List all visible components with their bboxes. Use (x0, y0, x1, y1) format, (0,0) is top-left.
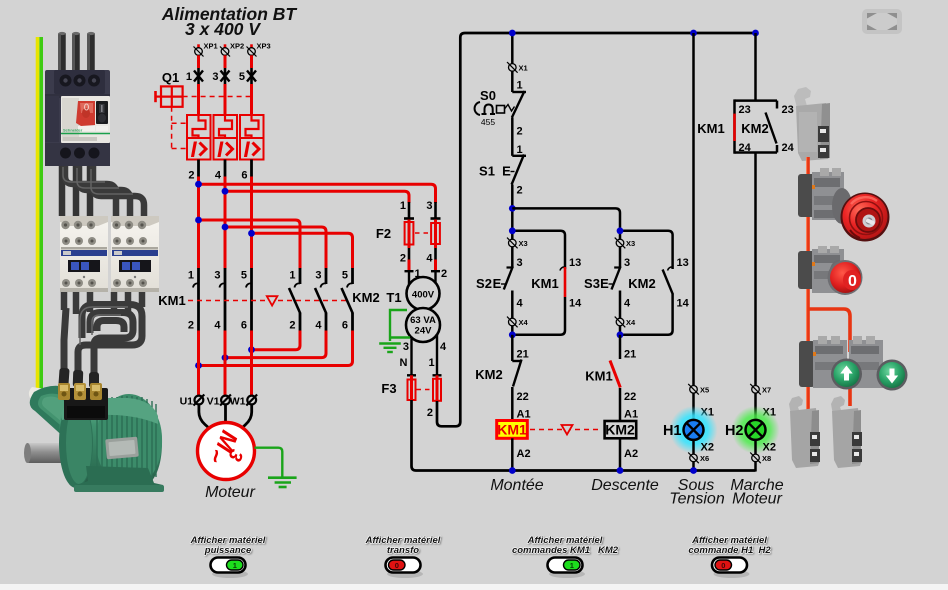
terminal W1 (230, 395, 257, 408)
svg-text:Moteur: Moteur (205, 484, 255, 501)
svg-text:13: 13 (677, 257, 689, 269)
green up/down buttons photo (799, 336, 908, 391)
svg-text:X3: X3 (626, 239, 635, 248)
coil KM1 energized (497, 421, 528, 439)
motor terminal studs (58, 383, 102, 400)
T1 ground symbol (379, 344, 401, 353)
KM2 aux 13-14 open contact (620, 257, 690, 335)
svg-text:1: 1 (186, 71, 192, 83)
overload element pole3 (240, 115, 264, 162)
svg-text:KM2: KM2 (628, 276, 655, 291)
overload output stub pole1 (188, 160, 198, 182)
svg-text:N: N (400, 357, 408, 369)
top-right resize icon (862, 9, 902, 34)
terminal XP1 (194, 42, 218, 57)
svg-text:XP1: XP1 (204, 42, 218, 51)
svg-text:S3: S3 (584, 276, 600, 291)
svg-text:2: 2 (400, 253, 406, 265)
svg-text:4: 4 (517, 298, 524, 310)
svg-text:X7: X7 (762, 386, 771, 395)
aux contact block photo top-right (794, 87, 830, 161)
svg-text:21: 21 (517, 349, 529, 361)
svg-text:KM2: KM2 (475, 367, 502, 382)
wire X1 to S0 (511, 71, 514, 92)
svg-text:6: 6 (241, 320, 247, 332)
svg-text:Moteur: Moteur (732, 491, 782, 508)
wire phase L3 vertical (250, 177, 253, 269)
terminal X7 (750, 384, 771, 395)
svg-text:KM2: KM2 (741, 121, 768, 136)
wire S1 down to node (511, 185, 514, 240)
wire node to S3 branch (512, 208, 620, 239)
wire L1 to U1 (197, 331, 200, 396)
wire X6 to rail (692, 462, 695, 471)
junction dots level3 (509, 331, 516, 338)
wire KM2 out 4 to L2 (225, 331, 326, 358)
transformer T1 primary terminals (405, 270, 441, 272)
svg-text:2: 2 (188, 320, 194, 332)
mechanical link dashed KM1-KM2 (188, 300, 348, 302)
wire X4 to lower node left (511, 326, 514, 336)
KM1 aux 13-14 closed contact (512, 257, 582, 335)
wire W1 to motor (241, 405, 252, 429)
cable L2 to breaker (72, 33, 80, 74)
svg-text:KM1: KM1 (531, 276, 558, 291)
terminal X4 left (507, 317, 529, 328)
cable end caps (58, 32, 94, 35)
coil interlock triangle (562, 425, 573, 435)
motor M3 symbol (198, 423, 255, 480)
S3 NO contact (612, 247, 621, 318)
svg-text:1: 1 (517, 144, 523, 156)
svg-text:21: 21 (624, 349, 636, 361)
svg-text:1: 1 (570, 561, 574, 570)
wire L3 to W1 (250, 331, 253, 396)
bottom light strip (0, 584, 948, 590)
fuse F3 terminals (407, 374, 442, 376)
T1 primary stubs (409, 271, 436, 288)
toggle2 switch OFF (386, 558, 424, 579)
svg-text:XP3: XP3 (257, 42, 271, 51)
svg-text:4: 4 (624, 298, 631, 310)
wire X7 to H2 (754, 393, 757, 420)
motor photo: foot (76, 466, 163, 491)
svg-text:2: 2 (427, 407, 433, 419)
wire V1 to motor (224, 405, 227, 424)
wire H2 to X8 (754, 440, 757, 454)
KM2 NC 21-22 contact closed (512, 360, 522, 421)
wire to KM1 NC (619, 335, 622, 359)
terminal X6 (688, 453, 709, 464)
wire coil KM2 to rail (619, 438, 622, 470)
fuse F2 pole1 (405, 202, 414, 271)
junction dots top taps (195, 181, 255, 237)
terminal X5 (688, 384, 709, 395)
svg-text:W1: W1 (230, 396, 246, 408)
toggle1 switch ON (211, 558, 249, 579)
red 0 push button photo (798, 246, 863, 295)
T1 ground wire (390, 310, 407, 341)
wire X4 to lower node right (619, 326, 622, 336)
svg-text:5: 5 (241, 270, 247, 282)
svg-text:0: 0 (721, 561, 725, 570)
svg-text:6: 6 (241, 170, 247, 182)
terminal X8 (750, 453, 771, 464)
wire bracket to X7 (754, 153, 757, 386)
svg-text:2: 2 (441, 268, 447, 280)
svg-text:455: 455 (481, 117, 495, 127)
cables breaker to contactors (62, 166, 90, 216)
wire U1 to motor (199, 405, 210, 429)
wire N to bottom rail + bottom rail (412, 400, 756, 471)
Q1 operator dashed link (172, 97, 252, 149)
motor photo: ground lug (29, 387, 52, 402)
wire to KM2 NC (511, 335, 514, 361)
svg-text:transfo: transfo (387, 545, 419, 556)
svg-text:X3: X3 (519, 239, 528, 248)
svg-text:0: 0 (395, 561, 399, 570)
overload element pole1 (187, 115, 211, 162)
T1 secondary stubs (412, 334, 438, 375)
junction dots top rail (509, 30, 516, 37)
wire S0 to S1 (511, 118, 514, 156)
cable L3 to breaker (87, 33, 95, 74)
lamp H1 glow (670, 406, 718, 454)
motor photo: name plate (105, 437, 139, 460)
wire L2 into breaker (224, 55, 227, 68)
contactor KM1 pole 3-4 closed (214, 268, 225, 332)
svg-text:63 VA: 63 VA (410, 315, 436, 326)
svg-text:X2: X2 (701, 442, 714, 454)
toggle labels style (190, 535, 772, 556)
wire phase L2 vertical (224, 177, 227, 269)
svg-text:KM1: KM1 (697, 121, 724, 136)
svg-text:4: 4 (426, 253, 433, 265)
svg-text:3: 3 (624, 257, 630, 269)
mechanical interlock triangle (267, 296, 278, 305)
motor ground wire (255, 448, 283, 477)
svg-text:22: 22 (517, 391, 529, 403)
cable highlights (60, 34, 89, 72)
wire S3node to KM2-13 branch (620, 231, 673, 267)
S0 mushroom actuator (475, 102, 515, 115)
emergency stop photo (798, 168, 890, 242)
svg-text:~: ~ (201, 448, 229, 464)
fuse F3 pole N (408, 375, 416, 400)
breaker Q1 contact pole1 (186, 68, 203, 84)
svg-text:KM2: KM2 (605, 422, 635, 438)
svg-text:A1: A1 (624, 409, 638, 421)
fuse F3 pole 1 (433, 375, 441, 401)
overload output stub pole3 (241, 160, 251, 182)
svg-text:3: 3 (315, 270, 321, 282)
wire pole3 into overload (250, 84, 253, 116)
svg-text:24: 24 (739, 142, 752, 154)
svg-text:1: 1 (289, 270, 295, 282)
wire L2 to fuse F2 pole1 (225, 191, 409, 203)
motor photo: shaft (26, 443, 72, 463)
wire PE green-yellow vertical (38, 37, 42, 393)
svg-text:S2: S2 (476, 276, 492, 291)
svg-text:commandes KM1 KM2: commandes KM1 KM2 (512, 545, 619, 556)
svg-text:E: E (502, 164, 511, 179)
svg-text:2: 2 (517, 126, 523, 138)
svg-text:X8: X8 (762, 454, 771, 463)
fuse F2 terminals (404, 217, 441, 220)
svg-text:4: 4 (315, 320, 322, 332)
svg-text:3: 3 (214, 270, 220, 282)
svg-text:E: E (493, 276, 502, 291)
contactor KM1 photo (60, 216, 108, 292)
svg-text:I: I (243, 137, 250, 162)
junction dots level2 (509, 227, 516, 234)
svg-text:Montée: Montée (490, 477, 543, 494)
motor ground symbol (268, 478, 297, 487)
wire pole1 into overload (197, 84, 200, 116)
svg-text:2: 2 (188, 170, 194, 182)
svg-text:KM1: KM1 (585, 369, 612, 384)
motor photo: terminal box (64, 388, 108, 420)
wire H1 to X6 (692, 440, 695, 454)
svg-text:X2: X2 (763, 442, 776, 454)
svg-text:4: 4 (215, 170, 222, 182)
overload element pole2 (214, 115, 238, 162)
lamp H2 glow (732, 406, 780, 454)
svg-text:Tension: Tension (669, 491, 725, 508)
svg-text:H1: H1 (663, 423, 682, 439)
wire X8 to rail end (754, 462, 757, 472)
node after S1 (509, 205, 516, 212)
cable L1 to breaker (58, 33, 66, 74)
terminal X4 right (615, 317, 636, 328)
contactor KM1 pole 5-6 closed (241, 268, 252, 332)
svg-text:23: 23 (782, 104, 794, 116)
svg-text:23: 23 (739, 104, 751, 116)
wire X5 to H1 (692, 393, 695, 420)
svg-text:commande H1 H2: commande H1 H2 (688, 545, 771, 556)
title Alimentation BT 3 x 400 V (161, 4, 297, 39)
svg-text:13: 13 (569, 257, 581, 269)
motor photo: body (60, 398, 162, 489)
wire L2 tap to KM2 pole3 (225, 227, 326, 269)
overload output stub pole2 (215, 160, 225, 182)
cables contactors to motor (64, 305, 142, 383)
KM1/KM2 aux 23-24 parallel bracket (735, 99, 778, 153)
terminal U1 (180, 395, 205, 408)
svg-text:3: 3 (212, 71, 218, 83)
svg-text:S1: S1 (479, 164, 495, 179)
wire KM2 out 6 to L1 (199, 331, 353, 366)
svg-text:3: 3 (403, 341, 409, 353)
wire KM2 out 2 to L3 (252, 331, 301, 350)
svg-text:4: 4 (214, 320, 221, 332)
svg-text:X1: X1 (519, 64, 528, 73)
wire L1 tap to KM2 pole1 (199, 220, 301, 269)
svg-text:22: 22 (624, 391, 636, 403)
fuse F3 dashed link (417, 389, 432, 391)
svg-text:Descente: Descente (591, 477, 659, 494)
terminal X1 (507, 62, 528, 73)
svg-text:A2: A2 (624, 448, 638, 460)
contactor KM1 pole 1-2 closed (188, 268, 199, 332)
svg-text:Q1: Q1 (162, 70, 179, 85)
svg-text:X4: X4 (626, 318, 636, 327)
svg-text:E: E (600, 276, 609, 291)
contactor KM2 photo (111, 216, 159, 292)
svg-text:I: I (190, 137, 197, 162)
branch function labels (490, 477, 783, 508)
wire node to KM1-13 branch (512, 231, 565, 267)
terminal V1 (207, 395, 231, 408)
terminal X3 left (507, 238, 528, 249)
fuse F2 pole2 (431, 202, 440, 271)
svg-text:S0: S0 (480, 88, 496, 103)
wire L2 to V1 (224, 331, 227, 396)
wire S0 branch from rail (511, 33, 514, 64)
svg-text:puissance: puissance (204, 545, 252, 556)
svg-text:2: 2 (517, 185, 523, 197)
svg-text:3 x 400 V: 3 x 400 V (185, 19, 261, 39)
breaker Q1 manual operator (156, 86, 183, 106)
svg-text:1: 1 (400, 200, 406, 212)
KM1 NC 21-22 contact open red (610, 361, 620, 422)
coil interlock dashed (530, 429, 602, 431)
wire L1 to fuse F2 pole2 (199, 184, 436, 203)
svg-text:A1: A1 (517, 409, 531, 421)
svg-text:F3: F3 (381, 381, 396, 396)
junction dots lower (195, 346, 255, 369)
svg-text:U1: U1 (180, 396, 194, 408)
svg-text:1: 1 (188, 270, 194, 282)
wire L1 into breaker (197, 55, 200, 68)
bottom aux contact blocks photo (789, 396, 862, 468)
coil KM2 (605, 421, 637, 438)
svg-text:400V: 400V (412, 290, 435, 301)
svg-text:24: 24 (782, 142, 795, 154)
svg-text:3: 3 (426, 200, 432, 212)
terminal X3 right (615, 238, 635, 249)
motor circuit breaker photo (GV2) (45, 70, 110, 166)
svg-text:1: 1 (517, 80, 523, 92)
svg-text:0: 0 (848, 273, 857, 290)
svg-text:T1: T1 (386, 290, 401, 305)
svg-text:5: 5 (239, 71, 245, 83)
transformer T1 (406, 277, 440, 342)
wire L3 into breaker (250, 55, 253, 68)
svg-text:KM2: KM2 (352, 290, 379, 305)
red panel wire bridge to down-button (808, 309, 850, 406)
wire pole2 into overload (224, 84, 227, 116)
terminal XP3 (247, 42, 271, 57)
svg-text:14: 14 (677, 298, 690, 310)
wire 24V live up to top rail + top rail (437, 33, 756, 426)
motor photo: mount arm (30, 386, 107, 449)
svg-text:1: 1 (233, 561, 237, 570)
lamp H2 (746, 420, 766, 440)
breaker Q1 contact pole3 (239, 68, 256, 84)
svg-text:Schneider: Schneider (63, 128, 83, 133)
S1 NO contact (512, 155, 526, 185)
lamp H1 (684, 420, 704, 440)
contactor KM2 pole 5-6 open (342, 268, 353, 332)
svg-text:I: I (217, 137, 224, 162)
svg-text:X6: X6 (700, 454, 709, 463)
wire H1 branch (692, 33, 695, 386)
toggle3 switch ON (548, 558, 586, 579)
svg-text:A2: A2 (517, 448, 531, 460)
red panel wire main vertical (806, 157, 810, 416)
toggle4 switch OFF (712, 558, 750, 579)
wire phase L1 vertical (197, 177, 200, 269)
junction dot H1 rail (690, 467, 697, 474)
terminal XP2 (220, 42, 244, 57)
svg-text:F2: F2 (376, 226, 391, 241)
contactor output cable stubs (64, 292, 142, 314)
svg-text:KM1: KM1 (497, 422, 527, 438)
svg-text:V1: V1 (207, 396, 220, 408)
svg-text:1: 1 (428, 357, 434, 369)
svg-text:3: 3 (517, 257, 523, 269)
contactor KM2 pole 1-2 open (289, 268, 300, 332)
wire L3 tap to KM2 pole5 (252, 233, 353, 268)
cable shrink ends (58, 368, 99, 388)
wire coil KM1 to rail (511, 438, 514, 470)
fuse F2 dashed link (415, 232, 430, 234)
svg-text:6: 6 (342, 320, 348, 332)
svg-text:X4: X4 (519, 318, 529, 327)
svg-text:4: 4 (440, 341, 447, 353)
breaker Q1 contact pole2 (212, 68, 229, 84)
svg-text:2: 2 (289, 320, 295, 332)
svg-text:KM1: KM1 (158, 293, 185, 308)
svg-text:X5: X5 (700, 386, 709, 395)
junction dots bottom rail (509, 467, 516, 474)
wire rail to KM aux 23 bracket (754, 33, 757, 101)
svg-text:14: 14 (569, 298, 582, 310)
S0 emergency stop NC contact (512, 91, 526, 118)
svg-text:5: 5 (342, 270, 348, 282)
svg-text:H2: H2 (725, 423, 744, 439)
S2 NO contact (504, 247, 513, 318)
svg-text:XP2: XP2 (230, 42, 244, 51)
svg-text:24V: 24V (415, 326, 433, 337)
contactor KM2 pole 3-4 open (315, 268, 326, 332)
